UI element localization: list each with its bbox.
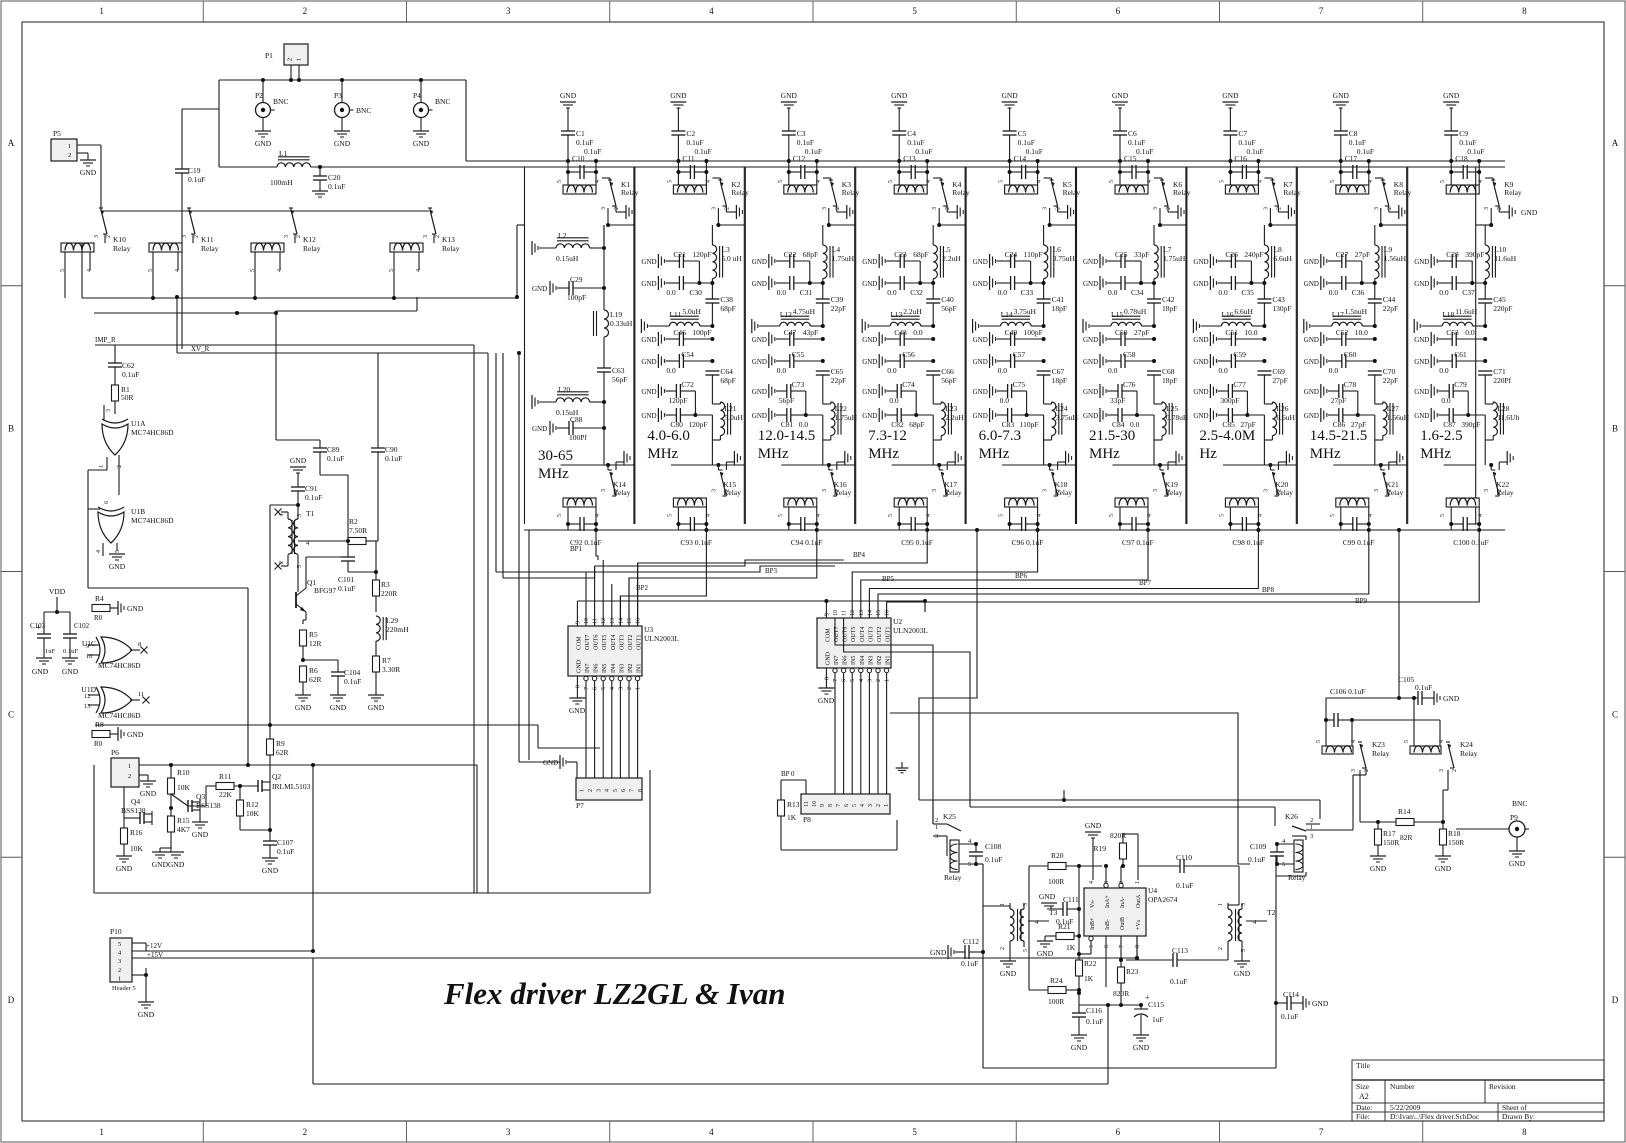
wire BP9 net: [887, 530, 1480, 618]
svg-text:6: 6: [1116, 6, 1121, 16]
svg-text:3: 3: [601, 207, 607, 210]
svg-text:2: 2: [1056, 207, 1062, 210]
wire T3 input: [983, 905, 1010, 907]
svg-text:C41: C41: [1052, 295, 1065, 304]
svg-text:0.1uF: 0.1uF: [305, 493, 322, 502]
svg-text:GND: GND: [1333, 91, 1350, 100]
capacitor C42: [1147, 298, 1161, 300]
svg-text:IN1: IN1: [637, 664, 643, 673]
svg-text:IN5: IN5: [851, 656, 857, 665]
inductor L8: [1264, 245, 1268, 279]
wire BP5 net: [852, 530, 1037, 618]
svg-text:100Pf: 100Pf: [569, 433, 587, 442]
svg-text:1: 1: [128, 763, 131, 770]
wire U1A inputs: [103, 405, 105, 421]
svg-text:10: 10: [833, 610, 839, 616]
svg-text:5.0uH: 5.0uH: [682, 307, 701, 316]
svg-text:3: 3: [1351, 769, 1357, 772]
svg-text:11.6uH: 11.6uH: [1494, 254, 1517, 263]
svg-text:11.6Uh: 11.6Uh: [1497, 413, 1519, 422]
svg-text:GND: GND: [1083, 336, 1098, 344]
svg-text:C2: C2: [686, 129, 695, 138]
svg-text:P7: P7: [576, 801, 584, 810]
relay K14 switch: [608, 469, 612, 471]
capacitor C19: [181, 109, 183, 169]
svg-text:C44: C44: [1383, 295, 1396, 304]
svg-text:1: 1: [1135, 881, 1141, 884]
svg-text:3: 3: [1263, 489, 1269, 492]
svg-text:390pF: 390pF: [1465, 250, 1484, 259]
svg-text:D: D: [8, 995, 15, 1005]
svg-text:5.0uH: 5.0uH: [724, 413, 743, 422]
svg-text:C65: C65: [831, 367, 844, 376]
wire filter left drop: [528, 530, 530, 760]
svg-text:3: 3: [1484, 207, 1490, 210]
svg-text:C48: C48: [894, 328, 907, 337]
svg-text:L14: L14: [1001, 310, 1013, 319]
xor gate U1B: [98, 512, 124, 543]
svg-text:IN2: IN2: [877, 656, 883, 665]
inductor L7: [1154, 245, 1158, 279]
svg-text:R16: R16: [130, 828, 143, 837]
svg-text:BP9: BP9: [1355, 597, 1368, 605]
svg-text:GND: GND: [138, 1010, 155, 1019]
svg-text:Relay: Relay: [1386, 488, 1404, 497]
capacitor C40: [926, 298, 940, 300]
svg-text:2: 2: [614, 207, 620, 210]
ground for K8 switch: [1388, 206, 1390, 212]
svg-text:C54: C54: [681, 350, 694, 359]
capacitor C114: [1274, 1001, 1278, 1005]
svg-text:R9: R9: [276, 739, 285, 748]
wire col1 main: [603, 225, 605, 310]
svg-text:C23: C23: [894, 250, 907, 259]
ground for C20: [312, 190, 328, 192]
wire C105 riser: [1398, 530, 1400, 571]
svg-text:7: 7: [1319, 1127, 1324, 1137]
svg-text:C115: C115: [1148, 1000, 1164, 1009]
ground for K18: [1057, 462, 1059, 470]
wire U1A output: [106, 457, 108, 470]
svg-text:Q4: Q4: [131, 797, 140, 806]
svg-text:GND: GND: [1414, 258, 1429, 266]
capacitor C104: [303, 659, 338, 661]
svg-text:GND: GND: [192, 830, 209, 839]
svg-text:6.0-7.3: 6.0-7.3: [979, 428, 1022, 444]
svg-text:C63: C63: [612, 366, 625, 375]
ground for T2: [1241, 941, 1243, 961]
svg-text:C107: C107: [277, 838, 294, 847]
svg-text:220pF: 220pF: [1493, 304, 1512, 313]
capacitor C7: [1229, 108, 1231, 131]
svg-text:12: 12: [84, 693, 91, 700]
svg-text:GND: GND: [1304, 388, 1319, 396]
relay K20 switch: [1270, 469, 1274, 471]
connector P5: [51, 139, 77, 161]
wire filter column 4 main node: [932, 225, 934, 245]
svg-text:C31: C31: [800, 288, 813, 297]
svg-text:4: 4: [816, 180, 822, 183]
svg-text:220mH: 220mH: [386, 625, 409, 634]
ground for K20: [1277, 462, 1279, 470]
capacitor C64: [705, 370, 719, 372]
wire K8 to filter: [1382, 178, 1384, 182]
svg-text:C96 0.1uF: C96 0.1uF: [1012, 538, 1044, 547]
svg-text:1: 1: [636, 687, 642, 690]
svg-text:C5: C5: [1018, 129, 1027, 138]
svg-text:L2: L2: [558, 231, 567, 240]
relay K22 coil: [1446, 498, 1479, 507]
title block: [1352, 1060, 1604, 1121]
svg-text:0.0: 0.0: [998, 366, 1008, 375]
wire P5 pin2 to ground: [77, 152, 88, 154]
svg-text:Relay: Relay: [731, 188, 749, 197]
svg-text:13: 13: [610, 618, 616, 624]
svg-text:0.1uF: 0.1uF: [1170, 977, 1187, 986]
svg-text:L6: L6: [1053, 245, 1062, 254]
ground for P10: [138, 1001, 154, 1003]
svg-text:0.1uF: 0.1uF: [1248, 855, 1265, 864]
svg-text:0.1uF: 0.1uF: [915, 147, 932, 156]
svg-text:50R: 50R: [121, 393, 134, 402]
svg-text:2: 2: [288, 58, 294, 61]
svg-text:MHz: MHz: [647, 446, 678, 462]
transformer T1: [288, 519, 292, 554]
filter box column 7: [1186, 167, 1188, 524]
svg-text:5: 5: [1330, 180, 1336, 183]
svg-text:0.78uH: 0.78uH: [1166, 413, 1189, 422]
relay K14 coil: [563, 498, 596, 507]
wire T1 pin1: [287, 512, 289, 519]
ground for U3: [569, 697, 585, 699]
svg-text:GND: GND: [641, 412, 656, 420]
ground for C104: [330, 694, 346, 696]
inductor L11: [640, 319, 642, 333]
wire filter column 6 lower: [1113, 464, 1187, 466]
svg-text:GND: GND: [641, 388, 656, 396]
svg-text:R11: R11: [219, 772, 231, 781]
svg-text:5: 5: [912, 1127, 917, 1137]
wire R2 node to C89: [319, 468, 321, 475]
capacitor C67: [1037, 370, 1051, 372]
relay K6 coil: [1115, 185, 1148, 194]
svg-text:L24: L24: [1056, 404, 1068, 413]
svg-text:1.75uH: 1.75uH: [832, 254, 855, 263]
svg-text:C16: C16: [1234, 154, 1247, 163]
wire filter column 5 lower: [1002, 464, 1076, 466]
svg-text:L27: L27: [1387, 404, 1399, 413]
wire U1C output: [130, 649, 140, 651]
svg-text:C94 0.1uF: C94 0.1uF: [791, 538, 823, 547]
svg-text:3: 3: [1023, 903, 1029, 906]
svg-text:GND: GND: [752, 388, 767, 396]
ground for R18: [1435, 855, 1451, 857]
ground for K4 switch: [946, 206, 948, 212]
svg-text:0.1uF: 0.1uF: [576, 138, 593, 147]
svg-text:0.15uH: 0.15uH: [556, 254, 579, 263]
svg-text:Relay: Relay: [1055, 488, 1073, 497]
ground for K6 switch: [1167, 206, 1169, 212]
inductor L19: [604, 310, 609, 337]
relay K13 coil: [390, 243, 423, 252]
svg-text:L13: L13: [890, 310, 902, 319]
filter box column 4: [855, 167, 857, 524]
svg-text:GND: GND: [973, 336, 988, 344]
svg-text:4: 4: [1351, 740, 1357, 743]
wire BP1 net: [596, 530, 598, 560]
svg-text:OPA2674: OPA2674: [1148, 895, 1178, 904]
svg-text:33pF: 33pF: [1110, 396, 1125, 405]
svg-text:Date:: Date:: [1356, 1103, 1372, 1112]
wire T2 input: [1238, 866, 1240, 905]
resistor R16: [124, 817, 140, 819]
svg-text:22pF: 22pF: [831, 376, 846, 385]
svg-text:GND: GND: [752, 258, 767, 266]
wire U1D output: [130, 699, 140, 701]
svg-text:12: 12: [601, 618, 607, 624]
svg-text:27pF: 27pF: [1134, 328, 1149, 337]
wire bottom relay bus: [524, 529, 1505, 531]
svg-text:COM: COM: [825, 628, 831, 642]
svg-text:4: 4: [705, 180, 711, 183]
svg-text:R22: R22: [1084, 959, 1097, 968]
svg-text:12: 12: [850, 610, 856, 616]
svg-text:2.2uH: 2.2uH: [903, 307, 922, 316]
svg-text:K13: K13: [442, 235, 455, 244]
wire K24 down: [1447, 770, 1449, 790]
svg-text:2: 2: [1166, 207, 1172, 210]
wire K26 block right: [1275, 855, 1277, 864]
resistor R23: [1118, 967, 1125, 983]
relay K9 switch: [1491, 179, 1495, 181]
capacitor C116: [1078, 1005, 1080, 1013]
svg-text:18pF: 18pF: [1162, 376, 1177, 385]
svg-text:C49: C49: [1005, 328, 1018, 337]
svg-text:L17: L17: [1332, 310, 1344, 319]
svg-text:Title: Title: [1356, 1061, 1371, 1070]
svg-text:MHz: MHz: [1310, 446, 1341, 462]
svg-text:GND: GND: [1443, 694, 1460, 703]
svg-text:GND: GND: [116, 864, 133, 873]
wire filter column 6 main node: [1153, 225, 1155, 245]
svg-text:C95 0.1uF: C95 0.1uF: [901, 538, 933, 547]
ground for T3: [1009, 941, 1011, 961]
wire filter column 3 lower: [781, 464, 855, 466]
resistor R10: [170, 765, 172, 778]
capacitor C5: [1009, 108, 1011, 131]
svg-text:L11: L11: [669, 310, 681, 319]
svg-text:IN6: IN6: [843, 656, 849, 665]
svg-text:VDD: VDD: [49, 587, 66, 596]
svg-text:C53: C53: [1446, 328, 1459, 337]
svg-text:A: A: [8, 138, 15, 148]
relay K5 switch: [1050, 179, 1054, 181]
svg-text:12R: 12R: [309, 639, 322, 648]
svg-text:GNDGND: GNDGND: [152, 860, 185, 869]
svg-text:C111: C111: [1063, 895, 1079, 904]
svg-text:C71: C71: [1493, 367, 1506, 376]
svg-text:R24: R24: [1050, 976, 1063, 985]
svg-text:4: 4: [709, 1127, 714, 1137]
inductor L6: [1044, 245, 1048, 279]
svg-text:MHz: MHz: [1089, 446, 1120, 462]
wire Q4 gate net: [123, 787, 125, 818]
capacitor C44: [1368, 298, 1382, 300]
svg-text:T2: T2: [1267, 908, 1276, 917]
BNC P4: [420, 80, 422, 102]
ground for P4: [420, 118, 422, 131]
ground for R8: [117, 727, 119, 741]
svg-text:GND: GND: [641, 358, 656, 366]
svg-text:130pF: 130pF: [1272, 304, 1291, 313]
svg-text:L5: L5: [942, 245, 951, 254]
svg-text:C: C: [8, 709, 14, 719]
connector P10: [110, 938, 132, 982]
svg-text:3: 3: [932, 207, 938, 210]
svg-text:GND: GND: [543, 759, 558, 767]
svg-text:U1A: U1A: [131, 419, 146, 428]
capacitor C20: [318, 165, 322, 169]
filter box column 3: [744, 167, 746, 524]
svg-text:C78: C78: [1344, 380, 1357, 389]
svg-text:15: 15: [627, 618, 633, 624]
relay K5 coil: [1005, 185, 1038, 194]
svg-text:C1: C1: [576, 129, 585, 138]
svg-text:GND: GND: [862, 412, 877, 420]
capacitor C4: [898, 108, 900, 131]
svg-text:Vs-: Vs-: [1090, 899, 1096, 908]
svg-text:1: 1: [885, 679, 891, 682]
xor gate U1A: [102, 424, 128, 455]
wire main filter bus A: [466, 160, 1505, 162]
svg-text:2: 2: [588, 789, 594, 792]
svg-text:0.1uF: 0.1uF: [1086, 1017, 1103, 1026]
svg-text:5: 5: [1219, 180, 1225, 183]
inductor L22: [831, 402, 835, 436]
svg-text:1.56uH: 1.56uH: [1387, 413, 1410, 422]
svg-text:C33: C33: [1021, 288, 1034, 297]
relay K7 switch: [1270, 179, 1274, 181]
svg-text:C58: C58: [1123, 350, 1136, 359]
svg-text:5: 5: [912, 6, 917, 16]
relay K11 switch: [187, 207, 191, 209]
svg-text:1: 1: [1000, 903, 1006, 906]
svg-text:4: 4: [1037, 180, 1043, 183]
svg-text:GND: GND: [109, 562, 126, 571]
capacitor C98: [1241, 517, 1243, 531]
svg-text:IN7: IN7: [585, 664, 591, 673]
inductor L12: [751, 319, 753, 333]
ground for U2: [818, 687, 834, 689]
svg-text:C108: C108: [985, 842, 1002, 851]
resistor R15: [170, 808, 172, 816]
svg-text:L20: L20: [558, 385, 570, 394]
svg-text:OUT2: OUT2: [877, 627, 883, 642]
svg-text:+: +: [1145, 993, 1150, 1002]
svg-text:C52: C52: [1336, 328, 1349, 337]
svg-text:10: 10: [812, 801, 818, 807]
svg-text:Header 5: Header 5: [112, 985, 136, 992]
svg-text:1K: 1K: [1084, 974, 1094, 983]
svg-text:Relay: Relay: [944, 873, 962, 882]
svg-text:68pF: 68pF: [720, 304, 735, 313]
relay K20 coil: [1225, 498, 1258, 507]
wire filter column 2 lower: [671, 464, 745, 466]
svg-text:GND: GND: [1193, 412, 1208, 420]
svg-text:Revision: Revision: [1489, 1082, 1516, 1091]
svg-text:Relay: Relay: [303, 244, 321, 253]
wire Q1 emitter: [305, 612, 307, 620]
svg-text:18pF: 18pF: [1052, 376, 1067, 385]
svg-text:U1B: U1B: [131, 507, 145, 516]
filter box column 6: [1076, 167, 1078, 524]
svg-text:Relay: Relay: [1275, 488, 1293, 497]
svg-text:P5: P5: [53, 129, 61, 138]
svg-text:1uF: 1uF: [45, 648, 56, 655]
svg-text:0.0: 0.0: [666, 288, 676, 297]
svg-text:110pF: 110pF: [1024, 250, 1043, 259]
svg-text:L29: L29: [386, 616, 398, 625]
svg-text:0.1uF: 0.1uF: [1459, 138, 1476, 147]
svg-text:3: 3: [711, 207, 717, 210]
svg-text:C13: C13: [903, 154, 916, 163]
svg-text:110pF: 110pF: [1020, 420, 1039, 429]
wire U2 OUT net K26: [844, 618, 970, 807]
svg-text:5: 5: [778, 514, 784, 517]
svg-text:GND: GND: [1414, 412, 1429, 420]
relay K4 coil: [894, 185, 927, 194]
svg-text:GND: GND: [532, 425, 547, 433]
capacitor C97: [1131, 517, 1133, 531]
svg-text:3: 3: [1374, 207, 1380, 210]
svg-text:BFG97: BFG97: [314, 586, 336, 595]
svg-text:5: 5: [1316, 740, 1322, 743]
relay K2 switch: [718, 179, 722, 181]
svg-text:U3: U3: [644, 625, 653, 634]
svg-text:5: 5: [888, 514, 894, 517]
inductor L10: [1485, 245, 1489, 279]
svg-text:4: 4: [605, 789, 611, 792]
svg-text:5: 5: [999, 514, 1005, 517]
svg-text:8: 8: [1522, 1127, 1527, 1137]
svg-text:OUT3: OUT3: [619, 635, 625, 650]
svg-text:1K: 1K: [787, 813, 797, 822]
svg-text:C37: C37: [1462, 288, 1475, 297]
svg-text:14: 14: [618, 618, 624, 624]
svg-text:GND: GND: [1133, 1043, 1150, 1052]
wire relay top bus: [101, 210, 429, 212]
svg-text:C17: C17: [1345, 154, 1358, 163]
wire C19 top: [182, 108, 219, 110]
svg-text:GND: GND: [413, 139, 430, 148]
svg-text:Relay: Relay: [1173, 188, 1191, 197]
svg-text:L16: L16: [1221, 310, 1233, 319]
relay K3 coil: [784, 185, 817, 194]
svg-text:GND: GND: [1414, 388, 1429, 396]
wire coil-drive vertical B: [502, 353, 504, 578]
wire relay mid bus: [82, 297, 517, 299]
ground for C115: [1133, 1034, 1149, 1036]
svg-text:2: 2: [876, 679, 882, 682]
svg-text:22pF: 22pF: [1383, 376, 1398, 385]
svg-text:2: 2: [118, 967, 121, 974]
svg-text:GND: GND: [1083, 412, 1098, 420]
svg-text:C19: C19: [188, 166, 201, 175]
svg-text:18pF: 18pF: [1162, 304, 1177, 313]
svg-text:GND: GND: [62, 667, 79, 676]
svg-text:0.1uF: 0.1uF: [1357, 147, 1374, 156]
svg-text:C35: C35: [1241, 288, 1254, 297]
